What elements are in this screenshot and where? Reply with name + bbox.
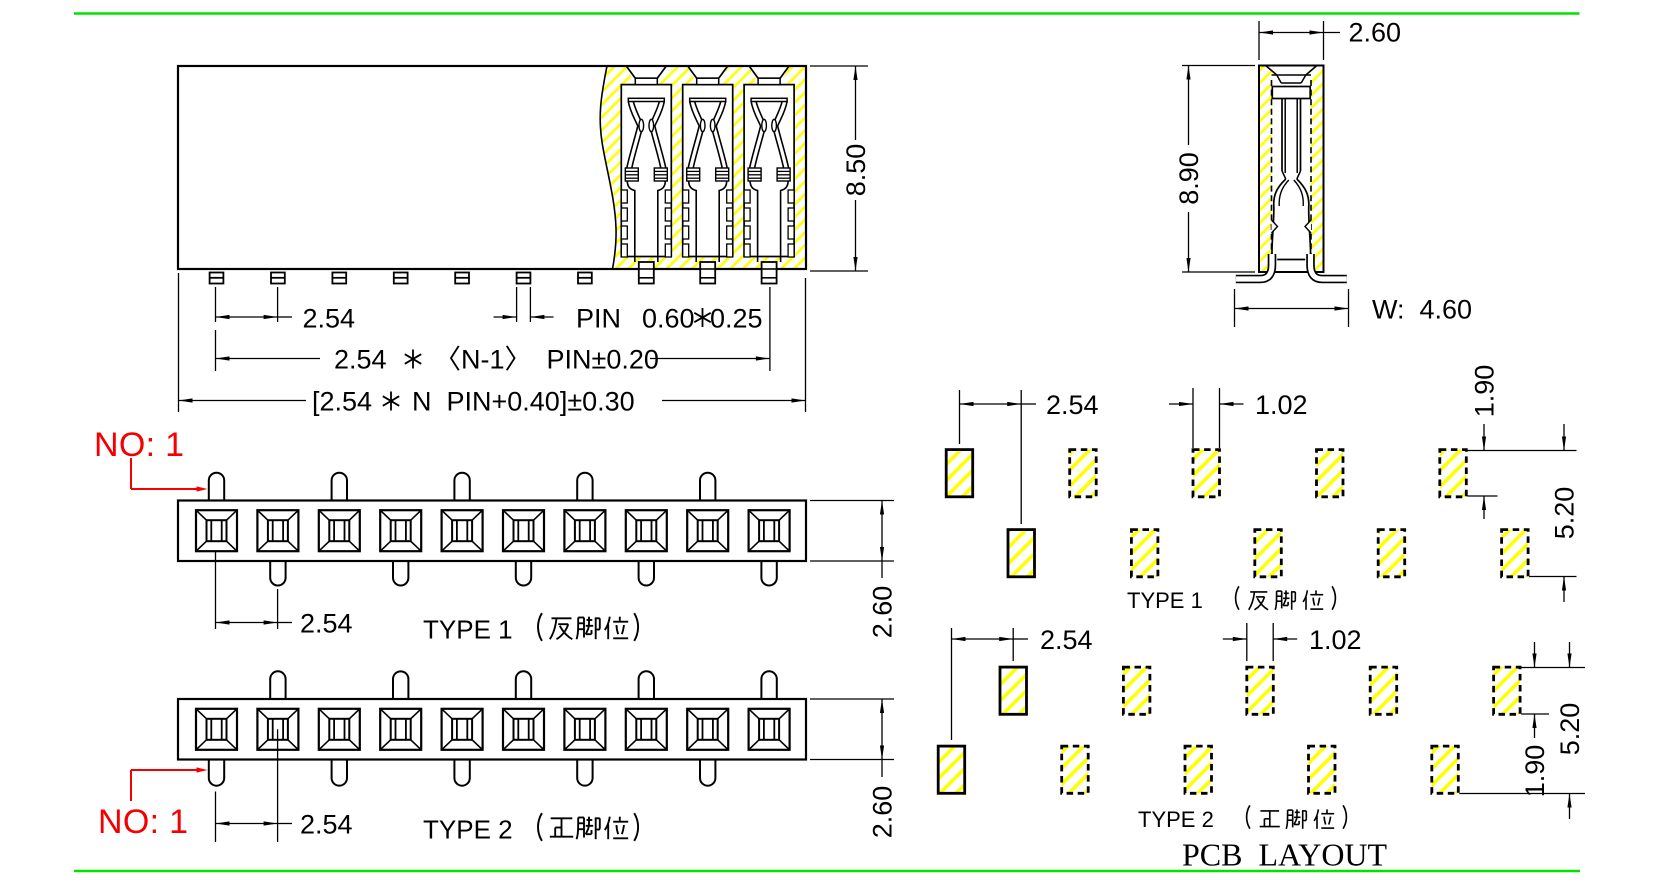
TYPE2 socket 10 xyxy=(749,709,790,750)
PCB TYPE1 pad 3 (top row) xyxy=(1070,450,1097,497)
svg-text:2.54: 2.54 xyxy=(303,303,356,333)
PCB TYPE2 pad 6 (top row) xyxy=(1247,667,1274,714)
TYPE2 top pin 4 xyxy=(393,671,408,699)
dimension 2.54 (pin pitch, side view) xyxy=(216,287,356,333)
PCB TYPE1 pad 4 (bottom row) xyxy=(1131,530,1158,577)
TYPE1 top pin 3 xyxy=(332,473,347,501)
TYPE1 socket 4 xyxy=(380,510,421,551)
dimension 2.54 (TYPE 1) xyxy=(216,552,353,639)
svg-text:5.20: 5.20 xyxy=(1555,703,1585,756)
svg-text:TYPE 1: TYPE 1 xyxy=(1127,588,1203,613)
TYPE1 top pin 5 xyxy=(454,473,469,501)
PCB TYPE2 pad 9 (bottom row) xyxy=(1432,746,1459,793)
cross-section: contact terminal xyxy=(1272,87,1312,260)
svg-text:1.02: 1.02 xyxy=(1255,390,1308,420)
svg-text:[2.54: [2.54 xyxy=(312,387,372,417)
red leader NO:1 (TYPE 1) xyxy=(131,458,208,492)
cross-section: SMT feet xyxy=(1236,254,1347,279)
TYPE2 top pin 10 xyxy=(761,671,776,699)
svg-text:2.60: 2.60 xyxy=(868,586,898,639)
side view: contact cavity & spring contact, position 8 xyxy=(621,66,671,284)
svg-text:TYPE 2: TYPE 2 xyxy=(1138,807,1214,832)
dimension 8.90 (cross-section height) xyxy=(1174,66,1255,273)
TYPE1 socket 7 xyxy=(564,510,605,551)
side view: solder pin 4 xyxy=(394,273,408,284)
svg-text:1.90: 1.90 xyxy=(1520,745,1550,798)
svg-text:N PIN+0.40]±0.30: N PIN+0.40]±0.30 xyxy=(412,387,635,417)
TYPE1 bottom pin 2 xyxy=(270,561,285,586)
TYPE2 socket 2 xyxy=(257,709,298,750)
svg-text:2.54: 2.54 xyxy=(334,345,387,375)
side view: body outline xyxy=(178,66,806,269)
PCB TYPE1 pad 8 (bottom row) xyxy=(1378,530,1405,577)
svg-text:TYPE 2: TYPE 2 xyxy=(423,815,513,845)
TYPE1 socket 2 xyxy=(257,510,298,551)
svg-text:2.60: 2.60 xyxy=(868,786,898,839)
PCB TYPE2 pad 5 (bottom row) xyxy=(1185,746,1212,793)
side view: solder pin 6 xyxy=(517,273,531,284)
dimension 2.60 (TYPE 1 height) xyxy=(810,501,898,639)
PCB TYPE2 pad 2 (top row) xyxy=(1000,667,1027,714)
dimension 1.02 (PCB TYPE 2) xyxy=(1223,623,1362,661)
svg-text:〈N-1〉 PIN±0.20: 〈N-1〉 PIN±0.20 xyxy=(434,345,659,375)
TYPE 2 assembly: body bar xyxy=(178,699,806,760)
TYPE2 socket 7 xyxy=(564,709,605,750)
dimension 1.90 (PCB TYPE 2) xyxy=(1520,642,1585,797)
PCB TYPE2 pad 10 (top row) xyxy=(1494,667,1521,714)
PCB TYPE1 pad 5 (top row) xyxy=(1193,450,1220,497)
PCB TYPE1 pad 9 (top row) xyxy=(1440,450,1467,497)
dimension 2.54 (PCB TYPE 2) xyxy=(952,625,1093,740)
TYPE1 socket 1 xyxy=(196,510,237,551)
TYPE2 bottom pin 3 xyxy=(332,760,347,786)
TYPE2 bottom pin 7 xyxy=(577,760,592,786)
dimension 2.60 (cross-section width) xyxy=(1259,18,1401,61)
PCB TYPE1 pad 10 (bottom row) xyxy=(1502,530,1529,577)
svg-text:5.20: 5.20 xyxy=(1550,487,1580,540)
TYPE1 socket 10 xyxy=(749,510,790,551)
TYPE1 bottom pin 10 xyxy=(761,561,776,586)
svg-text:8.50: 8.50 xyxy=(841,144,871,197)
red leader NO:1 (TYPE 2) xyxy=(131,767,208,801)
TYPE2 socket 4 xyxy=(380,709,421,750)
side view: solder pin 3 xyxy=(332,273,346,284)
side view: contact cavity & spring contact, position 10 xyxy=(744,66,794,284)
PCB TYPE2 pad 8 (top row) xyxy=(1370,667,1397,714)
PCB TYPE2 pad 3 (bottom row) xyxy=(1062,746,1089,793)
svg-text:2.54: 2.54 xyxy=(300,609,353,639)
TYPE 1 assembly: body bar xyxy=(178,501,806,562)
TYPE2 socket 9 xyxy=(687,709,728,750)
TYPE1 bottom pin 6 xyxy=(516,561,531,586)
svg-text:2.54: 2.54 xyxy=(300,810,353,840)
dimension 2.54 (PCB TYPE 1) xyxy=(960,390,1099,524)
dimension 2.54*(N-1) PIN±0.20 (side view) xyxy=(216,287,770,375)
PCB TYPE1 pad 2 (bottom row) xyxy=(1008,530,1035,577)
svg-text:2.54: 2.54 xyxy=(1040,625,1093,655)
TYPE2 socket 6 xyxy=(503,709,544,750)
dimension 8.50 (body height, side view) xyxy=(810,66,871,271)
TYPE1 top pin 1 xyxy=(209,473,224,501)
side view: hatched insulator body (right, broken-out section) xyxy=(600,66,806,269)
TYPE1 socket 5 xyxy=(442,510,483,551)
svg-text:PIN: PIN xyxy=(576,303,621,333)
svg-text:8.90: 8.90 xyxy=(1174,152,1204,205)
top green frame line xyxy=(74,12,1580,15)
TYPE2 top pin 6 xyxy=(516,671,531,699)
TYPE1 socket 9 xyxy=(687,510,728,551)
TYPE1 socket 6 xyxy=(503,510,544,551)
dimension [2.54*N PIN+0.40]±0.30 (side view) xyxy=(179,273,806,417)
TYPE1 top pin 7 xyxy=(577,473,592,501)
dimension PIN 0.60*0.25 (side view) xyxy=(494,287,763,333)
side view: contact cavity & spring contact, position 9 xyxy=(683,66,733,284)
cross-section: body outline xyxy=(1259,66,1324,273)
svg-text:PCB LAYOUT: PCB LAYOUT xyxy=(1182,837,1388,873)
TYPE1 socket 8 xyxy=(626,510,667,551)
side view: solder pin 2 xyxy=(271,273,285,284)
dimension 5.20 (PCB TYPE 2) xyxy=(1459,642,1585,819)
side view: solder pin 5 xyxy=(455,273,469,284)
svg-text:1.02: 1.02 xyxy=(1309,625,1362,655)
dimension 1.02 (PCB TYPE 1) xyxy=(1169,388,1308,448)
PCB TYPE1 pad 1 (top row) xyxy=(946,450,973,497)
PCB TYPE2 pad 1 (bottom row) xyxy=(938,746,965,793)
svg-text:W: 4.60: W: 4.60 xyxy=(1372,295,1472,325)
TYPE2 socket 3 xyxy=(319,709,360,750)
dimension 2.54 (TYPE 2) xyxy=(216,729,353,842)
svg-text:TYPE 1: TYPE 1 xyxy=(423,615,513,645)
bottom green frame line xyxy=(74,870,1580,873)
TYPE2 socket 1 xyxy=(196,709,237,750)
svg-text:0.60: 0.60 xyxy=(642,303,695,333)
TYPE2 bottom pin 5 xyxy=(454,760,469,786)
cross-section: hatched body walls xyxy=(1259,66,1324,273)
TYPE2 top pin 2 xyxy=(270,671,285,699)
TYPE1 bottom pin 8 xyxy=(639,561,654,586)
TYPE1 top pin 9 xyxy=(700,473,715,501)
side view: solder pin 7 xyxy=(578,273,592,284)
TYPE1 socket 3 xyxy=(319,510,360,551)
dimension W: 4.60 (feet span) xyxy=(1235,289,1473,327)
svg-text:1.90: 1.90 xyxy=(1470,365,1500,418)
dimension 2.60 (TYPE 2 height) xyxy=(810,699,898,838)
side view: wavy break line xyxy=(600,66,616,269)
PCB TYPE1 pad 7 (top row) xyxy=(1317,450,1344,497)
svg-text:2.60: 2.60 xyxy=(1349,18,1402,48)
TYPE2 socket 8 xyxy=(626,709,667,750)
svg-text:0.25: 0.25 xyxy=(710,303,763,333)
TYPE2 socket 5 xyxy=(442,709,483,750)
TYPE2 bottom pin 1 xyxy=(209,760,224,786)
side view: solder pin 1 xyxy=(210,273,224,284)
TYPE2 bottom pin 9 xyxy=(700,760,715,786)
PCB TYPE2 pad 7 (bottom row) xyxy=(1309,746,1336,793)
PCB TYPE2 pad 4 (top row) xyxy=(1123,667,1150,714)
dimension 5.20 (PCB TYPE 1) xyxy=(1529,424,1580,602)
svg-text:2.54: 2.54 xyxy=(1046,390,1099,420)
svg-text:NO: 1: NO: 1 xyxy=(94,426,184,464)
svg-text:NO: 1: NO: 1 xyxy=(98,803,188,841)
TYPE2 top pin 8 xyxy=(639,671,654,699)
dimension 1.90 (PCB TYPE 1) xyxy=(1467,365,1576,519)
PCB TYPE1 pad 6 (bottom row) xyxy=(1255,530,1282,577)
TYPE1 bottom pin 4 xyxy=(393,561,408,585)
